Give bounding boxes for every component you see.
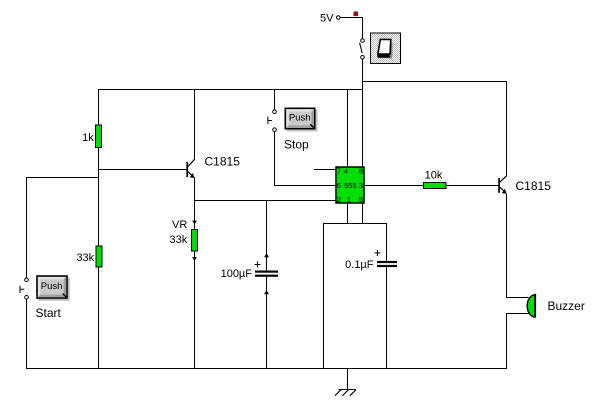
svg-text:Push: Push [41,281,63,292]
svg-text:C1815: C1815 [205,155,241,169]
svg-text:1: 1 [347,195,351,204]
svg-text:8: 8 [359,167,363,176]
svg-text:0.1µF: 0.1µF [345,259,374,271]
svg-text:Stop: Stop [284,137,309,151]
svg-text:5: 5 [359,195,363,204]
svg-text:3: 3 [359,181,363,190]
svg-text:1k: 1k [82,132,94,144]
svg-text:2: 2 [337,195,341,204]
svg-text:10k: 10k [425,169,443,181]
svg-text:C1815: C1815 [516,179,552,193]
svg-text:5V: 5V [320,13,334,25]
svg-text:VR: VR [172,219,187,231]
svg-text:7: 7 [337,167,341,176]
svg-text:33k: 33k [76,252,94,264]
svg-text:Buzzer: Buzzer [548,299,585,313]
svg-text:33k: 33k [170,234,188,246]
svg-text:555: 555 [344,181,357,190]
svg-text:6: 6 [337,181,341,190]
svg-text:4: 4 [344,167,348,176]
svg-text:Start: Start [36,306,62,320]
svg-text:Push: Push [289,113,311,124]
svg-text:100µF: 100µF [221,268,253,280]
